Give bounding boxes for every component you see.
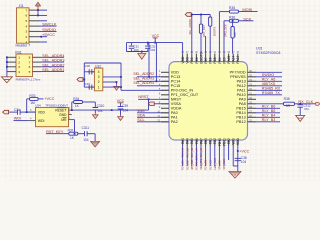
svg-text:5: 5: [25, 19, 27, 23]
svg-text:R37: R37: [68, 128, 74, 132]
resistor R38: [284, 102, 295, 105]
svg-text:10K: 10K: [233, 32, 237, 37]
svg-text:RLY_A4: RLY_A4: [195, 147, 199, 157]
svg-text:RLY_C1: RLY_C1: [204, 160, 208, 170]
wire J11 pin5: [40, 20, 47, 22]
ground arrow C39: [118, 115, 124, 120]
svg-text:PB4: PB4: [218, 57, 222, 63]
svg-text:104: 104: [134, 48, 139, 52]
U31 top pins: [182, 54, 184, 62]
wire R37 to C311: [78, 133, 84, 135]
osc left stubs: [88, 71, 94, 73]
svg-text:SEL_ADDR1: SEL_ADDR1: [42, 68, 64, 72]
wire riser col3: [191, 15, 193, 54]
wire SCL chip: [137, 121, 169, 123]
wire MR drop: [74, 120, 76, 134]
power +5V arrow J11: [35, 2, 40, 9]
svg-text:R34: R34: [73, 97, 79, 101]
svg-text:RLY_A6: RLY_A6: [262, 78, 275, 82]
svg-text:PB3: PB3: [222, 57, 226, 63]
svg-text:4: 4: [98, 70, 100, 74]
svg-text:MOSI: MOSI: [242, 7, 252, 12]
wire SWCLK: [40, 25, 57, 27]
svg-text:47p: 47p: [304, 107, 309, 111]
ground below R31: [1, 77, 12, 83]
junction VCC bottom: [237, 150, 239, 152]
U31 right pins: [248, 71, 257, 73]
wire VDD riser: [26, 99, 28, 112]
svg-text:RLY_B6: RLY_B6: [262, 105, 275, 109]
capacitor C31: [131, 43, 133, 46]
svg-text:R31: R31: [15, 50, 21, 54]
svg-text:7: 7: [25, 8, 27, 12]
svg-text:485TXD: 485TXD: [262, 82, 276, 86]
svg-text:PA13: PA13: [237, 80, 246, 84]
U34 pin stubs: [28, 111, 35, 113]
svg-text:R33: R33: [29, 94, 35, 98]
svg-text:3: 3: [98, 75, 100, 79]
capacitor C38: [235, 158, 241, 160]
wire J11 pin7 to +5V: [40, 9, 47, 11]
svg-text:28: 28: [249, 105, 252, 109]
svg-text:7: 7: [29, 60, 31, 64]
wire RLY_B5: [256, 112, 280, 114]
ground arrow osc: [114, 85, 120, 90]
svg-text:35: 35: [249, 74, 252, 78]
wire R38 out: [295, 103, 318, 105]
wire SEL_ADDR2 to chip: [137, 76, 169, 78]
junction J11 pin6: [37, 15, 39, 17]
wire J11 pin6: [40, 14, 47, 16]
wire SWDIO: [40, 30, 57, 32]
wire SCK riser: [223, 21, 225, 54]
wire C311 to gnd: [87, 133, 95, 135]
svg-text:SDA: SDA: [137, 114, 145, 118]
svg-text:PB5: PB5: [213, 57, 217, 63]
svg-text:2: 2: [98, 80, 100, 84]
junction osc pin1: [120, 86, 122, 88]
capacitor C37: [89, 85, 92, 90]
svg-text:RESET: RESET: [55, 108, 66, 112]
svg-text:C310: C310: [97, 104, 105, 108]
svg-text:6: 6: [29, 65, 31, 69]
svg-text:VDDA: VDDA: [171, 107, 182, 111]
svg-text:104: 104: [83, 138, 89, 142]
svg-text:RLY_A5: RLY_A5: [199, 147, 203, 157]
wire caps ground bus: [127, 51, 148, 53]
svg-text:BOOT0: BOOT0: [199, 52, 203, 63]
port VSSA arrow: [148, 102, 154, 106]
svg-text:RLY_B4: RLY_B4: [262, 114, 275, 118]
junction ground bus: [141, 51, 143, 53]
wire RX_CLK row: [256, 103, 284, 105]
svg-text:C34: C34: [14, 108, 20, 112]
wire caps left drop: [126, 43, 128, 52]
wire pin36: [256, 71, 282, 73]
capacitor C39: [118, 107, 124, 109]
svg-text:C36: C36: [85, 64, 91, 68]
junction R31 pin3: [6, 66, 8, 68]
wire R34 drop: [71, 102, 73, 110]
svg-text:+5VCC: +5VCC: [42, 32, 55, 37]
svg-text:PC15: PC15: [171, 84, 181, 88]
junction R31 pin1: [6, 56, 8, 58]
ground RST_KEY: [91, 141, 100, 147]
connector J11: [17, 8, 30, 43]
svg-text:Header 7: Header 7: [16, 43, 31, 47]
wire C39 to gnd: [120, 109, 122, 115]
svg-text:MR: MR: [61, 118, 67, 122]
wire OSC_IN to chip: [121, 89, 169, 91]
wire SWDIO: [256, 76, 282, 78]
wire VCC to C39: [120, 103, 122, 107]
svg-text:PB7: PB7: [204, 57, 208, 63]
port XTAL arrow: [77, 78, 83, 82]
wire SEL_ADDR4 to chip: [137, 85, 169, 87]
svg-text:485_DIR: 485_DIR: [190, 159, 194, 169]
R31 right pin stubs: [33, 56, 42, 58]
svg-text:VSS: VSS: [186, 56, 190, 63]
svg-text:C39: C39: [122, 104, 128, 108]
wire RLY_B3: [256, 121, 280, 123]
ground arrow caps: [138, 52, 146, 60]
svg-text:SEL_ADDR1: SEL_ADDR1: [188, 18, 192, 34]
wire C312 gnd: [299, 107, 301, 115]
svg-text:NRST: NRST: [171, 98, 182, 102]
svg-text:RLY_B1: RLY_B1: [181, 160, 185, 170]
junction R31 pin2: [6, 61, 8, 63]
svg-text:104: 104: [241, 160, 247, 164]
svg-text:VDD: VDD: [171, 71, 179, 75]
svg-text:PA12: PA12: [237, 84, 246, 88]
svg-text:PF1_OSC_OUT: PF1_OSC_OUT: [171, 93, 199, 97]
svg-text:SPI2_SCK: SPI2_SCK: [224, 24, 228, 37]
wire osc left top corner: [83, 63, 85, 72]
svg-text:R38: R38: [284, 97, 290, 101]
svg-text:LED_RUN: LED_RUN: [213, 158, 217, 170]
svg-text:1: 1: [18, 56, 20, 60]
R31 left pin stubs: [7, 56, 16, 58]
svg-text:WDI: WDI: [137, 109, 144, 113]
svg-text:PA0: PA0: [171, 111, 178, 115]
svg-text:PA8: PA8: [239, 102, 246, 106]
svg-text:PF6/VSS: PF6/VSS: [230, 75, 246, 79]
svg-text:104: 104: [123, 109, 129, 113]
resistor R37: [69, 132, 78, 135]
wire VSSA: [154, 103, 168, 105]
svg-text:+VCC: +VCC: [239, 149, 249, 153]
svg-text:PC13: PC13: [171, 75, 181, 79]
wire RS485_TX: [256, 94, 282, 96]
svg-text:RLY_B2: RLY_B2: [185, 160, 189, 170]
wire VCC rail: [127, 42, 183, 44]
svg-text:RLY_C2: RLY_C2: [208, 160, 212, 170]
svg-text:R36: R36: [229, 15, 235, 19]
wire col11: [228, 146, 230, 160]
svg-text:104: 104: [150, 48, 155, 52]
junction MR: [74, 133, 76, 135]
svg-text:PA14: PA14: [232, 56, 236, 64]
svg-text:8: 8: [29, 56, 31, 60]
svg-text:6: 6: [25, 14, 27, 18]
wire col13 VCC: [237, 146, 239, 172]
wire osc out: [103, 76, 121, 78]
svg-text:10: 10: [157, 110, 160, 114]
resistor R33: [27, 98, 30, 100]
resistor R32: [200, 15, 202, 25]
wire J11 pin1: [40, 41, 47, 43]
svg-text:U34: U34: [35, 104, 41, 108]
svg-text:R35: R35: [229, 6, 235, 10]
wire WDI: [14, 120, 29, 122]
wire SCK: [239, 20, 254, 22]
svg-text:TPS3823-33DBVT: TPS3823-33DBVT: [45, 104, 68, 108]
svg-text:C311: C311: [82, 126, 90, 130]
svg-text:SWDIO: SWDIO: [262, 73, 275, 77]
U31 bottom wires: [182, 146, 184, 166]
wire WDI chip: [137, 112, 169, 114]
svg-text:U32: U32: [95, 64, 101, 68]
oscillator U32: [94, 68, 102, 91]
wire C310 to gnd: [94, 110, 96, 113]
svg-text:36: 36: [249, 69, 252, 73]
svg-text:WDI: WDI: [38, 119, 45, 123]
svg-text:1: 1: [98, 85, 100, 89]
svg-text:BOOT0: BOOT0: [212, 26, 216, 36]
capacitor C311: [85, 131, 88, 136]
svg-text:SCK: SCK: [243, 16, 251, 21]
ground RX_CLK: [296, 115, 305, 121]
ground arrow C310: [93, 113, 99, 118]
svg-text:26: 26: [249, 114, 252, 118]
svg-text:2: 2: [18, 60, 20, 64]
svg-text:32: 32: [249, 87, 252, 91]
svg-text:C37: C37: [85, 82, 91, 86]
svg-text:SEL_ADDR3: SEL_ADDR3: [133, 76, 154, 80]
wire SEL_ADDR2: [41, 66, 64, 68]
svg-text:34: 34: [249, 78, 252, 82]
resistor R36: [229, 10, 238, 13]
svg-text:VDD: VDD: [38, 110, 46, 114]
junction osc gnd: [116, 81, 118, 83]
svg-text:NRST: NRST: [138, 95, 149, 99]
wire R32 to chip: [200, 33, 202, 53]
wire RS485_RX: [256, 89, 282, 91]
svg-text:RLY_A1: RLY_A1: [181, 147, 185, 157]
wire MOSI: [239, 11, 258, 13]
svg-text:VSSA: VSSA: [171, 102, 182, 106]
wire C312 drop: [299, 104, 301, 105]
svg-text:PA11: PA11: [237, 89, 246, 93]
wire J11 pin2 +5VCC: [40, 36, 47, 38]
wire NRST riser: [148, 99, 150, 110]
svg-text:SWCLK: SWCLK: [42, 22, 57, 27]
junction C32 rail: [147, 42, 149, 44]
resistor R34: [72, 101, 74, 103]
svg-text:RS485_B2: RS485_B2: [195, 157, 199, 170]
svg-text:PC14: PC14: [171, 80, 181, 84]
svg-text:GND: GND: [59, 113, 67, 117]
svg-text:RLY_A2: RLY_A2: [185, 147, 189, 157]
junction RX_CLK: [299, 103, 301, 105]
wire osc riser: [120, 63, 122, 90]
U31 bottom pins: [182, 140, 184, 146]
svg-text:PA9: PA9: [239, 98, 246, 102]
junction VDD riser: [26, 111, 28, 113]
svg-text:30: 30: [249, 96, 252, 100]
capacitor C32: [147, 43, 149, 46]
wire MOSI riser: [218, 12, 220, 54]
svg-text:PB8: PB8: [195, 57, 199, 63]
svg-text:SPI_CLK: SPI_CLK: [222, 159, 226, 170]
svg-text:29: 29: [249, 101, 252, 105]
svg-text:1: 1: [25, 40, 27, 44]
svg-text:SEL_ADDR2: SEL_ADDR2: [42, 63, 64, 67]
svg-text:PB15: PB15: [236, 107, 245, 111]
svg-text:RNR0603*4_1.27mm: RNR0603*4_1.27mm: [16, 77, 41, 81]
junction osc port: [83, 79, 85, 81]
svg-text:104: 104: [97, 109, 103, 113]
svg-text:33: 33: [249, 83, 252, 87]
resistor R37b: [229, 19, 238, 22]
wire SEL_ADDR3: [41, 61, 64, 63]
svg-text:SEL_ADDR3: SEL_ADDR3: [42, 59, 64, 63]
wire SEL riser A: [148, 43, 150, 77]
svg-text:RLY_B3: RLY_B3: [262, 118, 275, 122]
svg-text:RLY_A3: RLY_A3: [190, 147, 194, 157]
wire SDA chip: [137, 116, 169, 118]
wire C310 drop: [94, 102, 96, 108]
J11 pin stubs: [29, 9, 40, 11]
svg-text:J11: J11: [19, 4, 24, 8]
svg-text:PB6: PB6: [209, 57, 213, 63]
svg-text:12: 12: [157, 119, 160, 123]
wire osc pin2: [103, 81, 117, 83]
svg-text:RS485_TX: RS485_TX: [262, 91, 281, 95]
svg-text:5R: 5R: [286, 104, 291, 108]
resistor R39 vertical: [232, 21, 234, 27]
wire SEL_ADDR4: [41, 56, 64, 58]
svg-text:SEL_JP1: SEL_JP1: [199, 158, 203, 169]
junction osc out: [120, 76, 122, 78]
svg-text:SCL: SCL: [137, 118, 144, 122]
port arrow RX_CLK: [316, 102, 320, 105]
port top arrow: [185, 13, 191, 17]
wire RLY_A6: [256, 80, 282, 82]
svg-text:2: 2: [25, 35, 27, 39]
svg-text:PA15: PA15: [227, 56, 231, 64]
svg-text:PB12: PB12: [236, 120, 245, 124]
resistor R35 vertical: [209, 17, 212, 26]
U31 left pins: [161, 71, 169, 73]
svg-text:4: 4: [18, 70, 20, 74]
svg-text:PA13: PA13: [236, 56, 240, 64]
wire osc top rail: [84, 62, 121, 64]
svg-text:27: 27: [249, 110, 252, 114]
wire osc cap bus: [83, 72, 85, 87]
svg-text:PB9: PB9: [190, 57, 194, 63]
svg-text:SEL_ADDR4: SEL_ADDR4: [133, 81, 154, 85]
mcu U31: [169, 62, 248, 140]
wire to C34: [9, 111, 17, 113]
port WDI arrow: [3, 110, 9, 114]
wire RST_KEY: [46, 133, 69, 135]
wire SEL riser B: [155, 43, 157, 82]
svg-text:4: 4: [25, 24, 27, 28]
junction VCC stem: [154, 42, 156, 44]
svg-text:PB13: PB13: [236, 116, 245, 120]
svg-text:1M: 1M: [30, 101, 35, 105]
svg-text:RS485_RX: RS485_RX: [262, 87, 281, 91]
junction RESET R34: [71, 109, 73, 111]
ground C38: [229, 172, 241, 179]
wire R34 to C310: [83, 101, 96, 103]
wire SEL_ADDR1: [41, 71, 64, 73]
capacitor C310: [93, 108, 99, 110]
svg-text:+VCC: +VCC: [44, 97, 54, 101]
wire col12 gnd link: [232, 146, 234, 166]
capacitor C312: [297, 105, 303, 107]
wire NRST: [138, 98, 168, 100]
svg-text:SPI_CS: SPI_CS: [218, 160, 222, 169]
svg-text:5: 5: [29, 70, 31, 74]
svg-text:PF0-OSC_IN: PF0-OSC_IN: [171, 89, 194, 93]
svg-text:25: 25: [249, 119, 252, 123]
svg-text:PA2: PA2: [171, 120, 178, 124]
wire C34 to VDD: [21, 111, 36, 113]
wire top net: [192, 14, 211, 16]
svg-text:PA10: PA10: [237, 93, 246, 97]
svg-text:PB14: PB14: [236, 111, 245, 115]
svg-text:SEL_ADDR2: SEL_ADDR2: [133, 72, 154, 76]
svg-text:SWDIO: SWDIO: [42, 27, 56, 32]
wire RLY_B6: [256, 107, 280, 109]
svg-text:PA1: PA1: [171, 116, 178, 120]
junction J11 pin7: [37, 9, 39, 11]
wire RLY_B4: [256, 116, 280, 118]
wire rail to VDD pin: [182, 43, 184, 54]
svg-text:SEL_ADDR4: SEL_ADDR4: [42, 54, 64, 58]
wire osc gnd drop: [116, 82, 118, 85]
resistor network R31: [16, 54, 33, 77]
wire riser col6 BOOT: [205, 36, 207, 54]
wire osc pin1: [103, 86, 121, 88]
capacitor C34: [18, 110, 21, 115]
svg-text:STM32F030C8: STM32F030C8: [256, 51, 280, 55]
wire R31 ground bus: [6, 57, 8, 77]
wire R33 to +VCC: [38, 98, 43, 100]
junction NRST riser: [111, 109, 113, 111]
svg-text:31: 31: [249, 92, 252, 96]
wire 485TXD: [256, 85, 282, 87]
svg-text:RST_KEY: RST_KEY: [202, 25, 206, 37]
svg-text:3: 3: [25, 30, 27, 34]
wire SEL_ADDR3 to chip: [137, 80, 169, 82]
svg-text:PF7/VDD: PF7/VDD: [230, 71, 246, 75]
svg-text:RLY_B5: RLY_B5: [262, 109, 275, 113]
svg-text:WDI: WDI: [14, 117, 21, 121]
wire RESET to riser: [75, 109, 149, 111]
supervisor U34: [36, 108, 69, 127]
svg-text:VDD: VDD: [181, 56, 185, 64]
svg-text:3: 3: [18, 65, 20, 69]
capacitor C36: [89, 69, 92, 74]
